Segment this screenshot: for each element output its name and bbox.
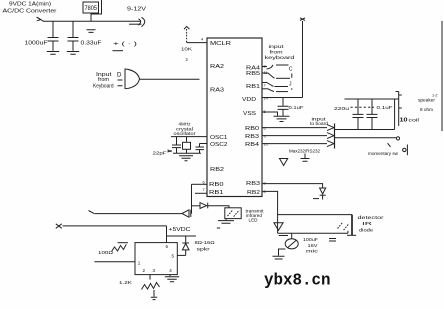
wire RB1 left bbox=[195, 192, 207, 194]
svg-text:from: from bbox=[98, 77, 110, 83]
switch S5 pushbutton bbox=[403, 148, 406, 151]
svg-text:9VDC 1A(min): 9VDC 1A(min) bbox=[9, 1, 51, 7]
wire to switch bbox=[335, 137, 396, 139]
svg-text:MCLR: MCLR bbox=[210, 41, 231, 47]
diode D2 bbox=[200, 203, 207, 209]
svg-text:C: C bbox=[289, 66, 293, 72]
connector J1 DC jack bbox=[129, 23, 142, 25]
svg-text:RA2: RA2 bbox=[210, 64, 224, 70]
svg-text:8 ohm: 8 ohm bbox=[420, 107, 433, 112]
wire branch cap bbox=[167, 235, 197, 237]
wire VDD bbox=[262, 97, 303, 99]
wire RB3 bbox=[262, 135, 327, 137]
wire RB4 bbox=[262, 143, 327, 145]
svg-text:+5VDC: +5VDC bbox=[169, 227, 191, 233]
label AC/DC converter bbox=[3, 1, 57, 14]
svg-text:RB1: RB1 bbox=[209, 190, 224, 196]
svg-text:RB0: RB0 bbox=[245, 126, 259, 132]
wire top rail bbox=[345, 98, 399, 100]
crystal X1 bbox=[186, 137, 188, 142]
svg-text:OSC2: OSC2 bbox=[210, 142, 228, 148]
svg-text:Keyboard: Keyboard bbox=[93, 83, 114, 89]
svg-text:IR: IR bbox=[362, 221, 372, 226]
wire branch bbox=[192, 205, 200, 207]
capacitor C1 1000uF bbox=[52, 21, 54, 37]
ground bbox=[279, 249, 286, 256]
arrow input bbox=[38, 18, 44, 22]
svg-text:momentary sw: momentary sw bbox=[368, 151, 399, 156]
svg-text:spkr: spkr bbox=[197, 247, 211, 252]
svg-text:9-12V: 9-12V bbox=[127, 7, 147, 13]
svg-text:ybx8.cn: ybx8.cn bbox=[264, 271, 331, 290]
svg-text:10: 10 bbox=[400, 117, 408, 123]
wire input bbox=[94, 261, 135, 263]
label input from keyboard bbox=[93, 72, 122, 90]
wire to RA3 bbox=[140, 78, 200, 80]
wire RB0 bbox=[262, 127, 327, 129]
svg-text:D: D bbox=[117, 73, 122, 79]
ground bbox=[274, 116, 290, 121]
regulator U7805 bbox=[83, 2, 99, 13]
capacitor C3 22pF bbox=[176, 137, 178, 145]
svg-text:2: 2 bbox=[186, 57, 189, 62]
wire RB0 left bbox=[192, 183, 208, 185]
ground pin4 bbox=[169, 275, 171, 277]
node speaker line bbox=[398, 92, 400, 127]
svg-text:J: J bbox=[289, 81, 292, 87]
svg-text:input: input bbox=[269, 44, 285, 50]
pin numbers bbox=[201, 37, 269, 195]
svg-text:RB2: RB2 bbox=[210, 167, 224, 173]
wire RB2 bbox=[262, 191, 278, 233]
capacitor C7 0.1uF bbox=[371, 99, 373, 114]
svg-text:5: 5 bbox=[172, 254, 175, 259]
amplifier U2 LM386 bbox=[135, 243, 177, 275]
switch S1 bbox=[262, 66, 267, 68]
resistor R3 bbox=[149, 275, 151, 280]
switch S3 bbox=[262, 82, 267, 84]
wire OSC1 bbox=[171, 136, 207, 138]
KEYBOARD SWITCH COLUMN bbox=[265, 44, 295, 61]
ground bbox=[225, 219, 227, 221]
svg-text:RB1: RB1 bbox=[246, 84, 260, 90]
wire VSS bbox=[262, 112, 278, 116]
switch S2 bbox=[262, 72, 268, 74]
svg-text:mic: mic bbox=[306, 249, 320, 254]
resistor R1 MCLR pullup bbox=[184, 27, 190, 30]
svg-text:+ ( · ): + ( · ) bbox=[113, 42, 137, 48]
ground bbox=[153, 290, 155, 297]
svg-text:1-2: 1-2 bbox=[432, 94, 438, 98]
wire to amp pin6 bbox=[166, 226, 168, 243]
svg-text:22pF: 22pF bbox=[153, 151, 167, 157]
wire MCLR bbox=[187, 42, 207, 44]
ground bbox=[67, 52, 79, 55]
wire right edge bbox=[441, 21, 443, 131]
MCU U1 bbox=[207, 38, 262, 197]
svg-text:8Ω-16Ω: 8Ω-16Ω bbox=[195, 240, 216, 245]
svg-text:OSC1: OSC1 bbox=[210, 135, 228, 141]
connector J3 bbox=[334, 124, 336, 149]
svg-text:2: 2 bbox=[143, 268, 146, 273]
svg-text:1: 1 bbox=[138, 260, 141, 265]
svg-text:RB0: RB0 bbox=[209, 182, 224, 188]
svg-text:100Ω: 100Ω bbox=[98, 250, 114, 256]
wire output pin5 bbox=[177, 254, 185, 256]
svg-text:AC/DC Converter: AC/DC Converter bbox=[3, 8, 57, 14]
svg-text:7: 7 bbox=[203, 187, 205, 192]
capacitor C4 22pF bbox=[199, 144, 201, 147]
svg-text:diode: diode bbox=[359, 228, 374, 233]
svg-text:10K: 10K bbox=[181, 47, 193, 52]
svg-text:100uF: 100uF bbox=[303, 237, 318, 242]
svg-text:coil: coil bbox=[409, 117, 420, 122]
microphone C9 bbox=[291, 233, 293, 238]
svg-text:1.2K: 1.2K bbox=[119, 280, 133, 286]
wire to LED bbox=[208, 206, 229, 208]
wire gnd rail bbox=[173, 152, 201, 154]
svg-text:LED: LED bbox=[249, 218, 258, 223]
capacitor C8 to speaker bbox=[185, 236, 187, 243]
node +5VDC rail bbox=[56, 224, 62, 229]
capacitor C6 220uF bbox=[334, 105, 393, 112]
svg-text:RB3: RB3 bbox=[246, 181, 260, 187]
svg-text:6: 6 bbox=[203, 180, 205, 185]
svg-text:RB2: RB2 bbox=[247, 190, 260, 196]
capacitor C2 0.33uF bbox=[72, 21, 74, 37]
svg-text:16V: 16V bbox=[308, 243, 318, 248]
svg-text:keyboard: keyboard bbox=[265, 55, 295, 61]
ground bbox=[47, 52, 59, 55]
ground bbox=[301, 154, 310, 162]
polarity marks bbox=[113, 42, 137, 48]
svg-text:7: 7 bbox=[264, 83, 266, 88]
svg-text:to board: to board bbox=[310, 121, 329, 126]
node +5V bus bbox=[302, 21, 304, 98]
svg-text:RA3: RA3 bbox=[210, 88, 224, 94]
svg-text:4: 4 bbox=[169, 268, 172, 273]
svg-text:220u: 220u bbox=[334, 106, 349, 112]
label speaker bbox=[409, 94, 438, 123]
svg-text:RB4: RB4 bbox=[245, 142, 259, 148]
resistor R2 100 bbox=[112, 244, 127, 251]
svg-text:4: 4 bbox=[201, 37, 204, 42]
detector IR receive bbox=[351, 215, 353, 236]
switch S4 bbox=[262, 88, 268, 90]
wire top from 7805 bbox=[92, 0, 102, 14]
wire main +9V rail bbox=[43, 20, 141, 22]
ground 7805 bbox=[90, 13, 92, 21]
wire lower bbox=[278, 232, 348, 234]
capacitor C5 0.1uF bbox=[282, 98, 284, 106]
diode D1 bbox=[182, 210, 189, 217]
wire bbox=[335, 99, 395, 130]
svg-text:0.1uF: 0.1uF bbox=[377, 105, 393, 111]
svg-text:speaker: speaker bbox=[418, 98, 435, 103]
svg-text:3: 3 bbox=[153, 268, 156, 273]
svg-text:0.33uF: 0.33uF bbox=[81, 41, 103, 47]
svg-text:VDD: VDD bbox=[242, 97, 256, 103]
ground triangle bbox=[280, 159, 288, 166]
svg-text:from: from bbox=[270, 49, 283, 55]
svg-text:RB3: RB3 bbox=[245, 134, 259, 140]
svg-text:7805: 7805 bbox=[85, 6, 98, 12]
connector J2 keypad bbox=[124, 69, 126, 90]
diode D3 bbox=[320, 188, 326, 194]
svg-text:Max232/RS232: Max232/RS232 bbox=[289, 148, 320, 154]
wire upper bbox=[278, 214, 352, 216]
watermark bbox=[264, 271, 331, 290]
LED IR transmit bbox=[225, 208, 241, 219]
svg-text:1000uF: 1000uF bbox=[25, 41, 49, 47]
arrow down bbox=[274, 223, 283, 231]
svg-text:0.1uF: 0.1uF bbox=[289, 105, 304, 111]
wire OSC2 bbox=[200, 143, 208, 145]
svg-text:RB5: RB5 bbox=[246, 71, 260, 77]
CRYSTAL SECTION bbox=[174, 122, 197, 137]
svg-text:oscillator: oscillator bbox=[174, 131, 197, 136]
wire long left bbox=[94, 213, 181, 215]
svg-text:detector: detector bbox=[358, 215, 385, 220]
ground bbox=[179, 156, 193, 161]
svg-text:VSS: VSS bbox=[243, 111, 257, 117]
svg-text:6: 6 bbox=[166, 244, 169, 249]
svg-text:9: 9 bbox=[264, 181, 266, 186]
wire RB3 bbox=[262, 184, 323, 188]
